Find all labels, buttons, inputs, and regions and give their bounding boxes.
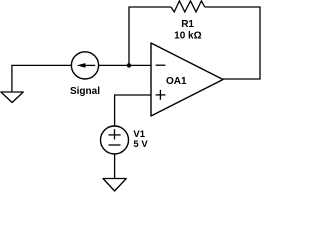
wire feedback right segment to op-amp output	[205, 7, 260, 79]
current source Signal	[71, 52, 98, 79]
voltage source V1	[101, 126, 129, 154]
V1 plus terminal mark	[109, 134, 121, 136]
V1 minus terminal mark	[109, 144, 121, 146]
op-amp inverting input minus	[156, 64, 166, 66]
svg-text:Signal: Signal	[70, 86, 100, 97]
current source Signal arrow	[84, 64, 95, 66]
ground (bottom)	[103, 179, 126, 192]
svg-text:OA1: OA1	[166, 76, 187, 87]
svg-text:10 kΩ: 10 kΩ	[174, 31, 201, 42]
op-amp non-inverting input plus	[156, 94, 166, 96]
wire feedback left/top segment	[129, 7, 171, 65]
svg-text:5 V: 5 V	[133, 139, 148, 150]
wire V1 to bottom ground	[114, 154, 116, 179]
node junction (feedback tap)	[127, 63, 131, 67]
wire current source to op-amp inverting input	[99, 64, 151, 66]
wire ground to current source	[12, 65, 72, 92]
svg-text:R1: R1	[181, 19, 194, 30]
resistor R1 zigzag	[171, 1, 205, 12]
wire V1 to op-amp non-inverting input	[115, 95, 151, 126]
op-amp OA1	[151, 43, 223, 116]
ground (left)	[1, 92, 23, 103]
